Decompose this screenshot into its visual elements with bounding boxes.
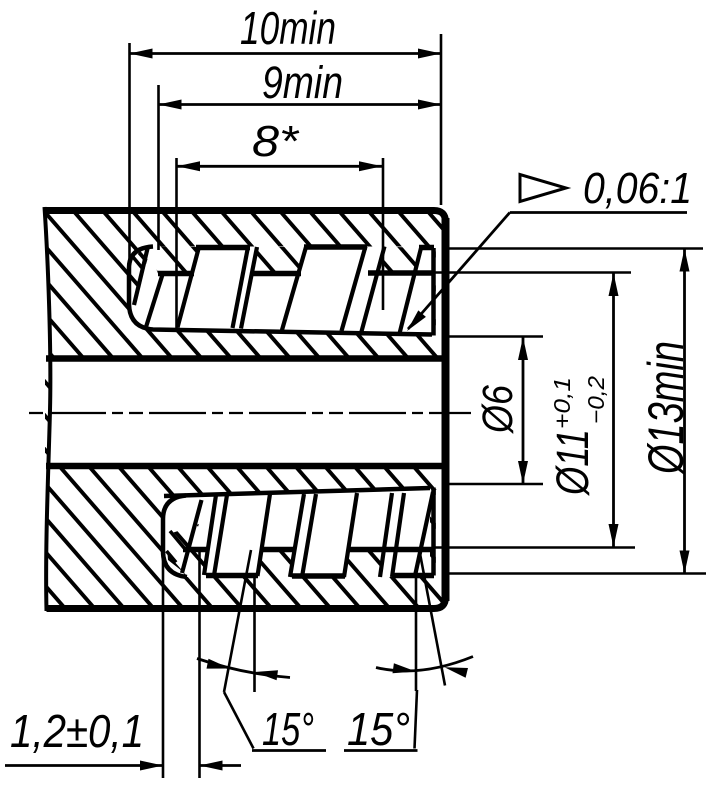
svg-text:Ø11: Ø11	[547, 429, 598, 497]
svg-text:9min: 9min	[262, 57, 343, 108]
svg-text:+0,1: +0,1	[549, 377, 575, 429]
svg-text:8*: 8*	[252, 117, 300, 166]
svg-text:Ø13min: Ø13min	[638, 341, 694, 476]
svg-text:15°: 15°	[347, 703, 410, 755]
svg-text:0,06:1: 0,06:1	[583, 164, 692, 213]
svg-text:15°: 15°	[262, 703, 314, 755]
svg-text:1,2±0,1: 1,2±0,1	[10, 705, 144, 757]
svg-text:Ø6: Ø6	[474, 385, 522, 435]
svg-text:−0,2: −0,2	[583, 376, 609, 424]
svg-text:10min: 10min	[240, 2, 336, 54]
